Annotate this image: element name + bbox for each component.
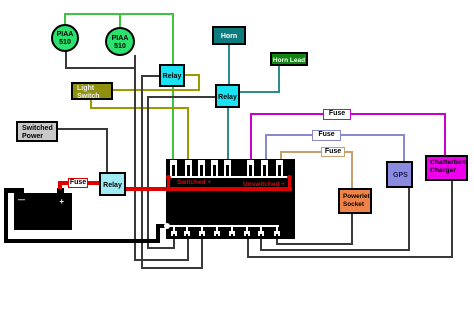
- wire olive to light switch right: [112, 89, 200, 91]
- wire ground loop3 horizontal: [141, 267, 203, 269]
- battery positive terminal: [57, 188, 64, 194]
- fuse block top terminal 4: [211, 160, 218, 165]
- wire red switched stub: [167, 177, 170, 189]
- wire ground relay R2 long vertical: [147, 96, 149, 249]
- fuse block bottom terminal b5: [231, 227, 233, 232]
- wire ground terminal b6 stub: [247, 236, 249, 258]
- wire magenta fuse F1 to corner: [350, 113, 446, 115]
- wire red battery to relay R3 through fuse: [58, 181, 100, 185]
- fuse block bottom terminal b3: [201, 227, 203, 232]
- fuse block bottom bus bar: [168, 225, 279, 227]
- label unswitched +: [243, 181, 285, 188]
- wire magenta down to chatterbox: [444, 113, 446, 157]
- wire slate to fuse F2: [265, 134, 313, 136]
- horn: [212, 26, 246, 45]
- relay R3: [99, 172, 126, 196]
- wire ground PIAA1 horizontal: [65, 67, 136, 69]
- fuse block bottom terminal b6: [246, 227, 248, 232]
- wire olive corner down: [198, 74, 200, 91]
- wire tan to fuse F3: [280, 151, 322, 153]
- fuse block top terminal 8: [276, 160, 283, 165]
- wire ground GPS horizontal: [260, 249, 410, 251]
- fuse F2 gps: [312, 130, 341, 141]
- horn lead: [270, 52, 308, 66]
- wire olive down to fuse block terminal 2: [187, 107, 189, 161]
- wire magenta to fuse F1: [250, 113, 324, 115]
- fuse block top terminal 2: [185, 160, 192, 165]
- wire teal relay R2 to fuse block terminal 5: [227, 108, 229, 161]
- fuse F3 powerlet: [321, 147, 345, 157]
- red unswitched terminal dot: [287, 175, 292, 180]
- battery negative terminal: [17, 188, 24, 194]
- fuse block top terminal 3: [198, 160, 205, 165]
- wire olive relay R1 right to corner: [184, 74, 200, 76]
- wire ground terminal b1 stub: [173, 236, 175, 249]
- wire red unswitched stub: [288, 177, 291, 189]
- wire slate fuse F2 to corner: [340, 134, 405, 136]
- fuse block top terminal 6: [247, 160, 254, 165]
- wire green top bus: [64, 13, 174, 15]
- switched power: [16, 121, 58, 142]
- wire magenta terminal 6 riser: [250, 113, 252, 161]
- fuse block bottom terminal b8: [276, 227, 278, 232]
- light switch: [71, 82, 113, 100]
- wire teal horn lead drop: [278, 64, 280, 93]
- wire battery ground exit: [4, 188, 20, 193]
- wire ground chatterbox horizontal: [247, 256, 452, 258]
- fuse block top bus bar: [167, 176, 291, 178]
- fuse block body: [166, 159, 295, 239]
- wire battery ground to block left terminal: [156, 224, 167, 228]
- wire green down through relay R1 to fuse block terminal 1: [172, 13, 174, 161]
- wire ground terminal b7 stub: [260, 236, 262, 251]
- fuse block bottom terminal b7: [260, 227, 262, 232]
- fuse block bottom terminal b4: [216, 227, 218, 232]
- wire ground relay R2 left horizontal: [147, 96, 215, 98]
- wire olive light switch bottom drop: [90, 99, 92, 109]
- fuse F0 battery: [68, 178, 88, 188]
- wire ground relay R1 left stub: [141, 75, 159, 77]
- wire ground chatterbox vertical: [451, 180, 453, 258]
- lamp PIAA 510 no.1: [51, 24, 79, 52]
- wire ground relay R1 long vertical: [141, 75, 143, 269]
- lamp PIAA 510 no.2: [105, 27, 135, 56]
- wire tan fuse F3 to corner: [344, 151, 353, 153]
- wire ground PIAA1 drop: [65, 51, 67, 69]
- fuse block left ground terminal dot: [164, 223, 170, 229]
- battery body: [14, 193, 72, 230]
- fuse block bottom terminal b1: [173, 227, 175, 232]
- wire olive horizontal to x188: [90, 107, 189, 109]
- wire ground powerlet vertical: [351, 213, 353, 245]
- wire ground powerlet horizontal: [276, 243, 353, 245]
- fuse block top terminal 1: [170, 160, 177, 165]
- wire slate down to GPS: [403, 134, 405, 164]
- wire red relay R3 to fuse block bus bar: [126, 187, 292, 191]
- wire teal horn lead to relay R2 right: [239, 91, 280, 93]
- wire switched power to relay R3 horizontal: [58, 128, 108, 130]
- wire ground loop2 horizontal: [134, 259, 189, 261]
- wire switched power to relay R3 vertical: [106, 128, 108, 174]
- wire green drop to PIAA 2: [119, 13, 121, 29]
- wire ground loop1 horizontal: [147, 247, 175, 249]
- fuse block top terminal 5: [224, 160, 231, 165]
- wire ground terminal b8 stub: [276, 236, 278, 245]
- fuse F1 chatterbox: [323, 109, 351, 120]
- red switched terminal dot: [166, 175, 171, 180]
- GPS: [386, 161, 413, 188]
- powerlet socket: [338, 188, 372, 214]
- wire slate terminal 7 riser: [265, 134, 267, 161]
- wire ground PIAA2 long vertical: [134, 55, 136, 261]
- wire battery ground bottom horizontal: [4, 239, 160, 243]
- wire tan terminal 8 riser: [280, 151, 282, 161]
- chatterbox charger: [425, 155, 468, 181]
- wire green drop to PIAA 1: [64, 13, 66, 25]
- wire red battery positive riser: [58, 181, 62, 189]
- wire teal horn to relay R2: [228, 45, 230, 85]
- relay R1: [159, 64, 185, 87]
- wire ground loop2 stub to terminal b2: [187, 236, 189, 261]
- wire ground terminal b3 stub: [201, 236, 203, 269]
- fuse block top terminal 7: [261, 160, 268, 165]
- wire battery ground rise: [156, 226, 160, 243]
- relay R2: [215, 84, 240, 108]
- wire battery ground left vertical: [4, 188, 8, 243]
- fuse block bottom terminal b2: [186, 227, 188, 232]
- wire tan down to powerlet: [351, 151, 353, 190]
- wire ground GPS vertical: [408, 186, 410, 251]
- label switched +: [177, 179, 211, 186]
